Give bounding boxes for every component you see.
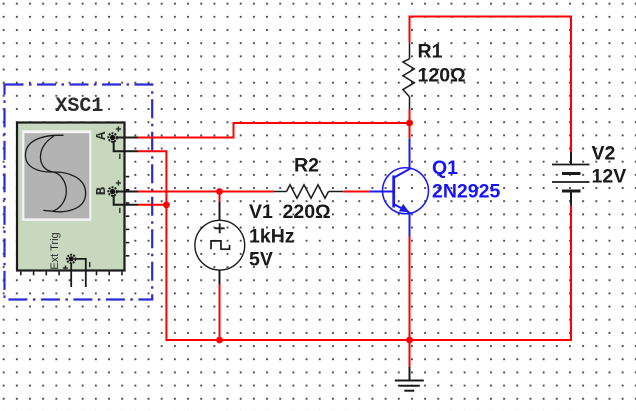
wire A+ black stub [117,137,138,139]
ground [395,367,424,391]
wire base node to R2 (red) [220,191,275,193]
oscilloscope body [17,123,129,276]
svg-text:120Ω: 120Ω [418,65,466,87]
junction dot scope minus [163,201,170,208]
oscilloscope screen [22,130,91,221]
svg-text:5V: 5V [249,249,273,271]
svg-text:B: B [94,186,110,195]
terminal B [94,180,121,213]
resistor R2 [274,155,343,224]
source V1 [195,201,295,285]
svg-text:A: A [94,131,110,140]
wire A- black stub [114,141,138,151]
instrument boundary XSC1 (blue dash-dot rect) [5,85,153,300]
wire emitter to ground bus (red) [409,237,411,342]
svg-text:R1: R1 [418,41,443,63]
terminal Ext Trig [49,232,89,287]
svg-text:R2: R2 [294,155,319,177]
svg-text:V1: V1 [249,201,273,223]
svg-text:XSC1: XSC1 [55,95,103,118]
junction dot base/V1 [216,188,223,195]
resistor R1 [403,41,466,110]
svg-text:220Ω: 220Ω [283,201,331,223]
wire B- black stub [114,195,138,205]
battery V2 [552,143,626,206]
ground bus wire (red) [166,339,571,341]
terminal A [94,126,121,159]
wire A- to minus bus (red) [138,151,166,205]
svg-text:1kHz: 1kHz [249,226,295,248]
wire A+ to collector node (red) [138,123,410,138]
wire top rail R1 to V2 (red) [410,17,572,153]
junction dot V1 bottom [216,337,223,344]
wire base node to V1 top (red) [219,192,221,203]
svg-text:V2: V2 [592,143,616,165]
wire V1 bottom to ground bus (red) [219,285,221,341]
transistor Q1 [370,138,500,236]
wire R1 bottom to collector (red) [409,109,411,138]
junction dot collector node [406,120,413,127]
wire ground stub (red) [409,340,411,367]
wire B+ black stub [117,191,138,193]
svg-text:2N2925: 2N2925 [432,181,500,203]
svg-text:12V: 12V [592,166,627,188]
wire B- to junction (red) [138,204,166,206]
wire R2 to Q1 base (red) [343,191,370,193]
svg-text:Q1: Q1 [432,157,458,179]
junction dot emitter/ground [406,337,413,344]
wire minus node down to ground bus (red) [165,205,167,341]
wire B+ to base node (red) [138,191,220,193]
svg-text:Ext Trig: Ext Trig [49,232,61,269]
wire V2 bottom to ground bus (red) [570,205,572,341]
